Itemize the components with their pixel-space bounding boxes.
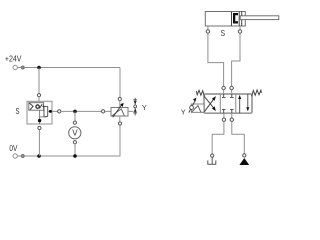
sensor inner box bbox=[29, 103, 44, 111]
valve bottom port R bbox=[231, 113, 233, 118]
junction voltmeter to 0V bbox=[73, 154, 77, 158]
node +24V terminal bbox=[13, 65, 17, 69]
wire voltmeter to 0V bbox=[74, 144, 76, 156]
wire terminal to amplifier bbox=[105, 110, 111, 112]
sensor S top terminal bbox=[37, 94, 40, 97]
wire sensor bottom to 0V bbox=[38, 130, 40, 156]
supply claw symbol bbox=[208, 157, 216, 164]
sensor inner chevron bbox=[29, 103, 33, 110]
wire output to amplifier bbox=[61, 110, 102, 112]
sensor inner ring bbox=[36, 105, 39, 108]
sensor inner slash bbox=[40, 104, 43, 108]
solenoid link marker electrical bbox=[133, 98, 137, 116]
svg-text:S: S bbox=[16, 106, 20, 116]
wire terminal to sensor box bbox=[38, 97, 40, 103]
wire sensor top branch bbox=[38, 68, 40, 94]
sensor S outer box bbox=[27, 101, 52, 124]
wire 0V rail bbox=[17, 125, 120, 156]
silencer triangle bbox=[239, 158, 249, 165]
valve middle box blocked ports bbox=[222, 94, 234, 113]
wire terminal to amplifier rect bbox=[119, 101, 121, 108]
sensor internal vertical line bbox=[39, 110, 41, 124]
cylinder right port bbox=[239, 26, 241, 30]
sensor bottom terminal bbox=[38, 126, 41, 129]
amplifier lambda symbol bbox=[112, 109, 124, 116]
valve left box crossed arrows bbox=[204, 100, 213, 112]
svg-text:V: V bbox=[72, 128, 78, 137]
amplifier rect (valve solenoid driver) bbox=[111, 108, 128, 117]
piston right lines bbox=[238, 12, 240, 27]
wire junction to voltmeter bbox=[73, 110, 77, 114]
amplifier arrow bbox=[113, 105, 122, 117]
sensor output terminal bbox=[58, 110, 61, 113]
voltmeter top terminal bbox=[73, 121, 76, 124]
valve left spring bbox=[196, 90, 204, 96]
tube P to supply bbox=[212, 121, 224, 153]
sensor internal L path bbox=[40, 116, 46, 118]
wire +24V rail corner down to amplifier bbox=[119, 68, 121, 98]
valve top port A bbox=[222, 86, 225, 89]
cylinder body bbox=[205, 12, 245, 27]
tube cylinder left to valve bbox=[208, 33, 224, 86]
valve right spring bbox=[252, 90, 262, 96]
sensor internal junction dot bbox=[38, 119, 41, 122]
sensor output wire bbox=[48, 110, 59, 112]
wire voltmeter branch bbox=[74, 111, 76, 121]
piston left line bbox=[231, 12, 233, 27]
valve solenoid lambda bbox=[192, 106, 202, 113]
svg-text:0V: 0V bbox=[9, 144, 18, 153]
junction sensor to 0V bbox=[37, 154, 41, 158]
amplifier bottom pin bbox=[119, 116, 121, 122]
amplifier right pin bbox=[128, 110, 133, 112]
valve solenoid link circle bbox=[190, 106, 194, 110]
silencer terminal bbox=[243, 154, 246, 157]
terminal before amplifier bbox=[102, 110, 105, 113]
voltmeter bottom terminal bbox=[73, 141, 76, 144]
valve solenoid arrow bbox=[189, 101, 195, 112]
piston magnet C bbox=[233, 13, 238, 24]
valve V1 body bbox=[204, 94, 252, 113]
valve right box straight arrows bbox=[239, 97, 241, 114]
valve solenoid box bbox=[191, 104, 204, 112]
svg-text:+24V: +24V bbox=[5, 54, 22, 63]
piston rod bbox=[240, 16, 279, 20]
supply terminal bbox=[211, 154, 214, 157]
tube cylinder right to valve bbox=[232, 33, 240, 86]
node 0V terminal bbox=[13, 154, 17, 158]
voltmeter V1 bbox=[69, 127, 81, 139]
cylinder left port bbox=[207, 26, 209, 30]
valve bottom port P bbox=[223, 113, 225, 118]
tube R to silencer bbox=[232, 121, 245, 153]
svg-text:Y: Y bbox=[181, 108, 186, 117]
sensor output junction dot bbox=[49, 110, 52, 113]
sensor output stage rect bbox=[44, 106, 48, 116]
valve top port B bbox=[230, 86, 233, 89]
svg-text:Y: Y bbox=[142, 103, 147, 112]
wire +24V rail bbox=[17, 67, 120, 69]
svg-text:S: S bbox=[221, 28, 226, 38]
amplifier bottom terminal bbox=[118, 122, 121, 125]
junction on +24V rail bbox=[37, 66, 41, 70]
amplifier top terminal bbox=[118, 97, 121, 100]
